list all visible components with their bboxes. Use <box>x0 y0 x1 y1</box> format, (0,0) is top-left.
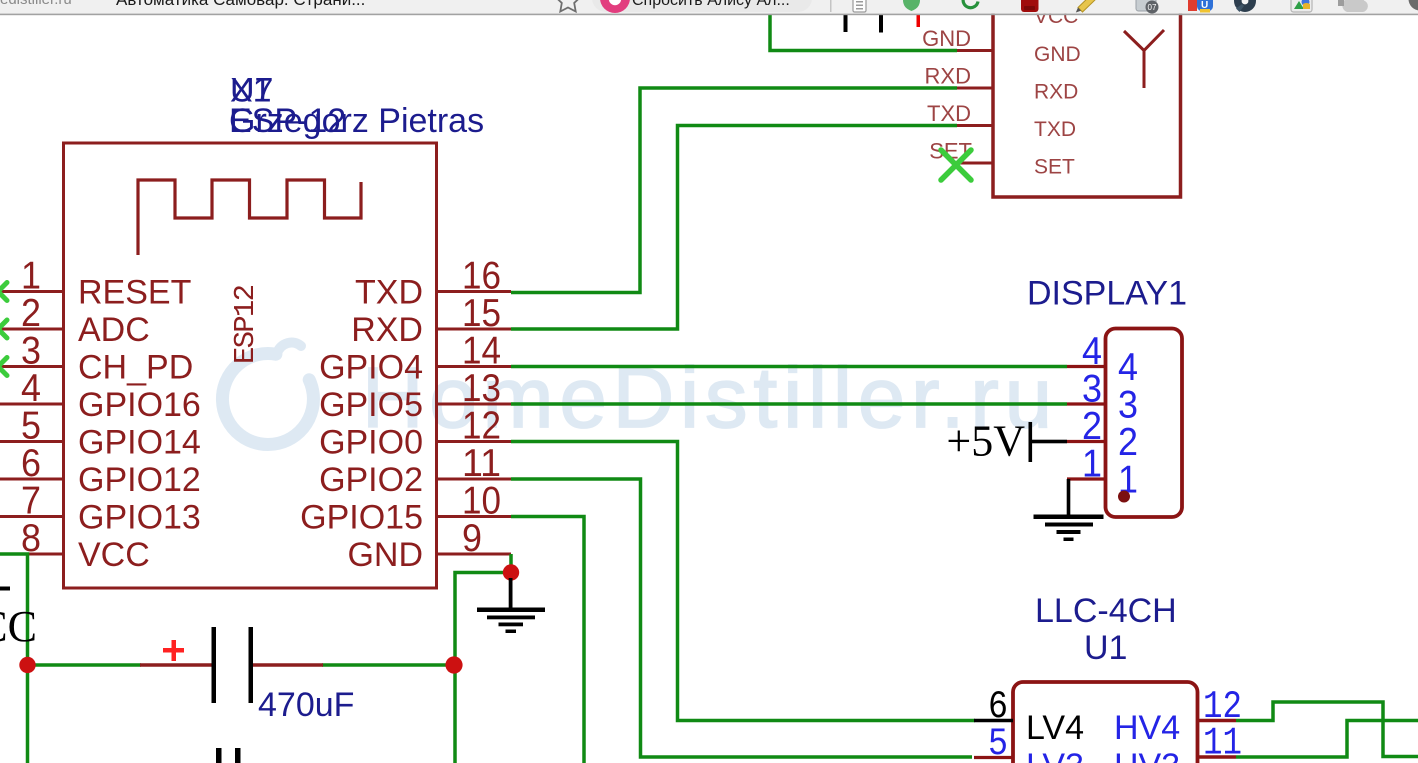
ESP right pin names <box>300 274 423 575</box>
no-connect X pin3 <box>0 358 7 376</box>
svg-text:TXD: TXD <box>1034 118 1076 141</box>
ESP left pin stubs 1-8 <box>0 292 64 555</box>
wire ESP TXD to module RXD <box>511 88 957 293</box>
wire VCC net at ESP pin8 <box>0 554 28 763</box>
svg-text:DISPLAY1: DISPLAY1 <box>1027 275 1187 313</box>
wire ESP GPIO5 to DISPLAY1 pin3 <box>511 402 1067 406</box>
DISPLAY1 outside pin numbers <box>1082 330 1102 486</box>
svg-text:HV3: HV3 <box>1114 747 1180 763</box>
wire capacitor C1 right to ground vertical <box>322 663 454 667</box>
black tick 2 (cut symbol above) <box>879 15 883 33</box>
red VCC tick above module <box>917 15 921 27</box>
svg-text:LV4: LV4 <box>1026 709 1084 747</box>
svg-text:GPIO12: GPIO12 <box>78 461 201 499</box>
watermark HomeDistiller.ru <box>222 342 1052 446</box>
svg-text:GPIO2: GPIO2 <box>319 461 423 499</box>
svg-text:VCC: VCC <box>78 536 150 574</box>
svg-text:VCC: VCC <box>0 602 37 651</box>
IC U7/X1 ESP-12 body <box>64 143 437 588</box>
DISPLAY1 inside pin numbers <box>1118 346 1138 502</box>
svg-text:HV4: HV4 <box>1114 709 1180 747</box>
wire U1 HV4 pin12 <box>1236 702 1418 757</box>
svg-text:RXD: RXD <box>1034 81 1078 104</box>
svg-text:+5V: +5V <box>946 417 1025 466</box>
svg-text:GPIO4: GPIO4 <box>319 349 423 387</box>
connector DISPLAY1 body <box>1106 329 1183 518</box>
svg-text:GPIO0: GPIO0 <box>319 424 423 462</box>
U1 pin6 stub (black) <box>974 719 1013 723</box>
svg-text:Автоматика Самовар. Страни...: Автоматика Самовар. Страни... <box>116 0 365 9</box>
svg-text:RXD: RXD <box>351 311 423 349</box>
svg-text:GPIO16: GPIO16 <box>78 386 201 424</box>
svg-text:TXD: TXD <box>927 101 971 126</box>
wire ESP GND pin9 to ground net <box>455 554 511 763</box>
svg-text:07: 07 <box>1148 3 1157 12</box>
ESP12 vertical label inside body <box>229 284 262 364</box>
svg-text:GND: GND <box>922 26 971 51</box>
wire ESP GPIO4 to DISPLAY1 pin4 <box>511 365 1067 369</box>
svg-text:ESP12: ESP12 <box>229 284 262 364</box>
bluetooth module antenna symbol <box>1124 30 1164 88</box>
svg-text:GPIO14: GPIO14 <box>78 424 201 462</box>
ESP-12 antenna squiggle symbol <box>138 180 361 255</box>
bluetooth module pin stubs VCC GND RXD TXD SET <box>957 51 993 164</box>
no-connect X pin1 <box>0 283 7 301</box>
junction dot at VCC / C1 left <box>19 657 35 673</box>
capacitor C1 polarity plus sign <box>163 640 184 661</box>
svg-text:GND: GND <box>347 536 423 574</box>
svg-text:GPIO5: GPIO5 <box>319 386 423 424</box>
svg-text:TXD: TXD <box>355 274 423 312</box>
ESP right pin numbers 16-9 <box>462 255 501 561</box>
svg-text:CH_PD: CH_PD <box>78 349 193 387</box>
svg-text:GND: GND <box>1034 43 1081 66</box>
wire ESP RXD to module TXD <box>511 126 957 330</box>
svg-text:Grzegorz Pietras: Grzegorz Pietras <box>229 102 484 140</box>
capacitor C1 lead left (dark red) <box>140 663 212 667</box>
bluetooth module inside pin names <box>1034 5 1081 179</box>
svg-text:GPIO15: GPIO15 <box>300 499 423 537</box>
wire VCC junction to capacitor C1 left <box>28 663 142 667</box>
U1 pin5 stub <box>974 756 1013 759</box>
ground symbol at DISPLAY1 pin1 <box>1034 515 1104 542</box>
svg-text:5: 5 <box>988 722 1008 763</box>
DISPLAY1 pin1 marker dot <box>1118 491 1130 503</box>
svg-text:LLC-4CH: LLC-4CH <box>1035 592 1177 630</box>
net labels GND RXD TXD SET at module pins <box>922 26 972 164</box>
value ESP-12 overlapped with Grzegorz Pietras <box>229 102 484 140</box>
wire ESP GPIO15 down <box>511 517 584 763</box>
capacitor C1 plates <box>212 627 254 703</box>
browser toolbar <box>0 0 1418 15</box>
ESP right pin stubs 9-16 <box>437 292 512 555</box>
black wire DISPLAY1 pin1 to ground <box>1067 479 1071 516</box>
svg-text:U1: U1 <box>1084 629 1127 667</box>
bluetooth module body <box>993 0 1181 197</box>
svg-text:LV3: LV3 <box>1026 747 1084 763</box>
junction dot at pin9 GND corner <box>503 564 519 580</box>
svg-text:RXD: RXD <box>925 64 971 89</box>
wire ESP GPIO2 to U1 LV3 <box>511 479 972 757</box>
wire U1 HV3 pin11 <box>1236 721 1418 758</box>
U1 pin12 stub <box>1198 719 1237 723</box>
svg-text:1: 1 <box>1082 443 1102 486</box>
ground symbol near ESP pin9 <box>477 578 545 633</box>
svg-text:9: 9 <box>462 517 482 560</box>
junction dot at C1 right / GND vertical <box>445 656 462 673</box>
no-connect X pin2 <box>0 320 7 338</box>
svg-text:11: 11 <box>1203 722 1242 763</box>
VCC power flag (cut at left edge) <box>0 587 37 652</box>
DISPLAY1 pin stubs 4,3,2,1 <box>1067 367 1106 480</box>
capacitor C2 plates (cut at bottom) <box>216 748 241 763</box>
svg-text:SET: SET <box>1034 156 1075 179</box>
wire ESP GPIO0 to U1 LV4 <box>511 442 975 721</box>
U1 pin11 stub <box>1198 755 1237 759</box>
svg-text:470uF: 470uF <box>258 686 354 724</box>
ESP left pin names <box>78 274 201 575</box>
capacitor C1 lead right (dark red) <box>253 663 324 667</box>
svg-text:Спросить Алису Ал...: Спросить Алису Ал... <box>632 0 790 9</box>
wire GND net to module <box>770 15 957 51</box>
svg-text:RESET: RESET <box>78 274 191 312</box>
no-connect X on SET pin <box>941 150 971 180</box>
svg-text:GPIO13: GPIO13 <box>78 499 201 537</box>
+5V power flag at DISPLAY1 pin2 <box>946 417 1067 466</box>
ESP left pin numbers 1-8 <box>21 255 41 561</box>
designator U7 overlapped with X1 <box>230 72 273 110</box>
svg-text:ADC: ADC <box>78 311 150 349</box>
svg-text:edistiller.ru: edistiller.ru <box>0 0 72 8</box>
black tick 1 (cut symbol above) <box>844 15 848 32</box>
IC U1 LLC-4CH body <box>1013 682 1198 763</box>
